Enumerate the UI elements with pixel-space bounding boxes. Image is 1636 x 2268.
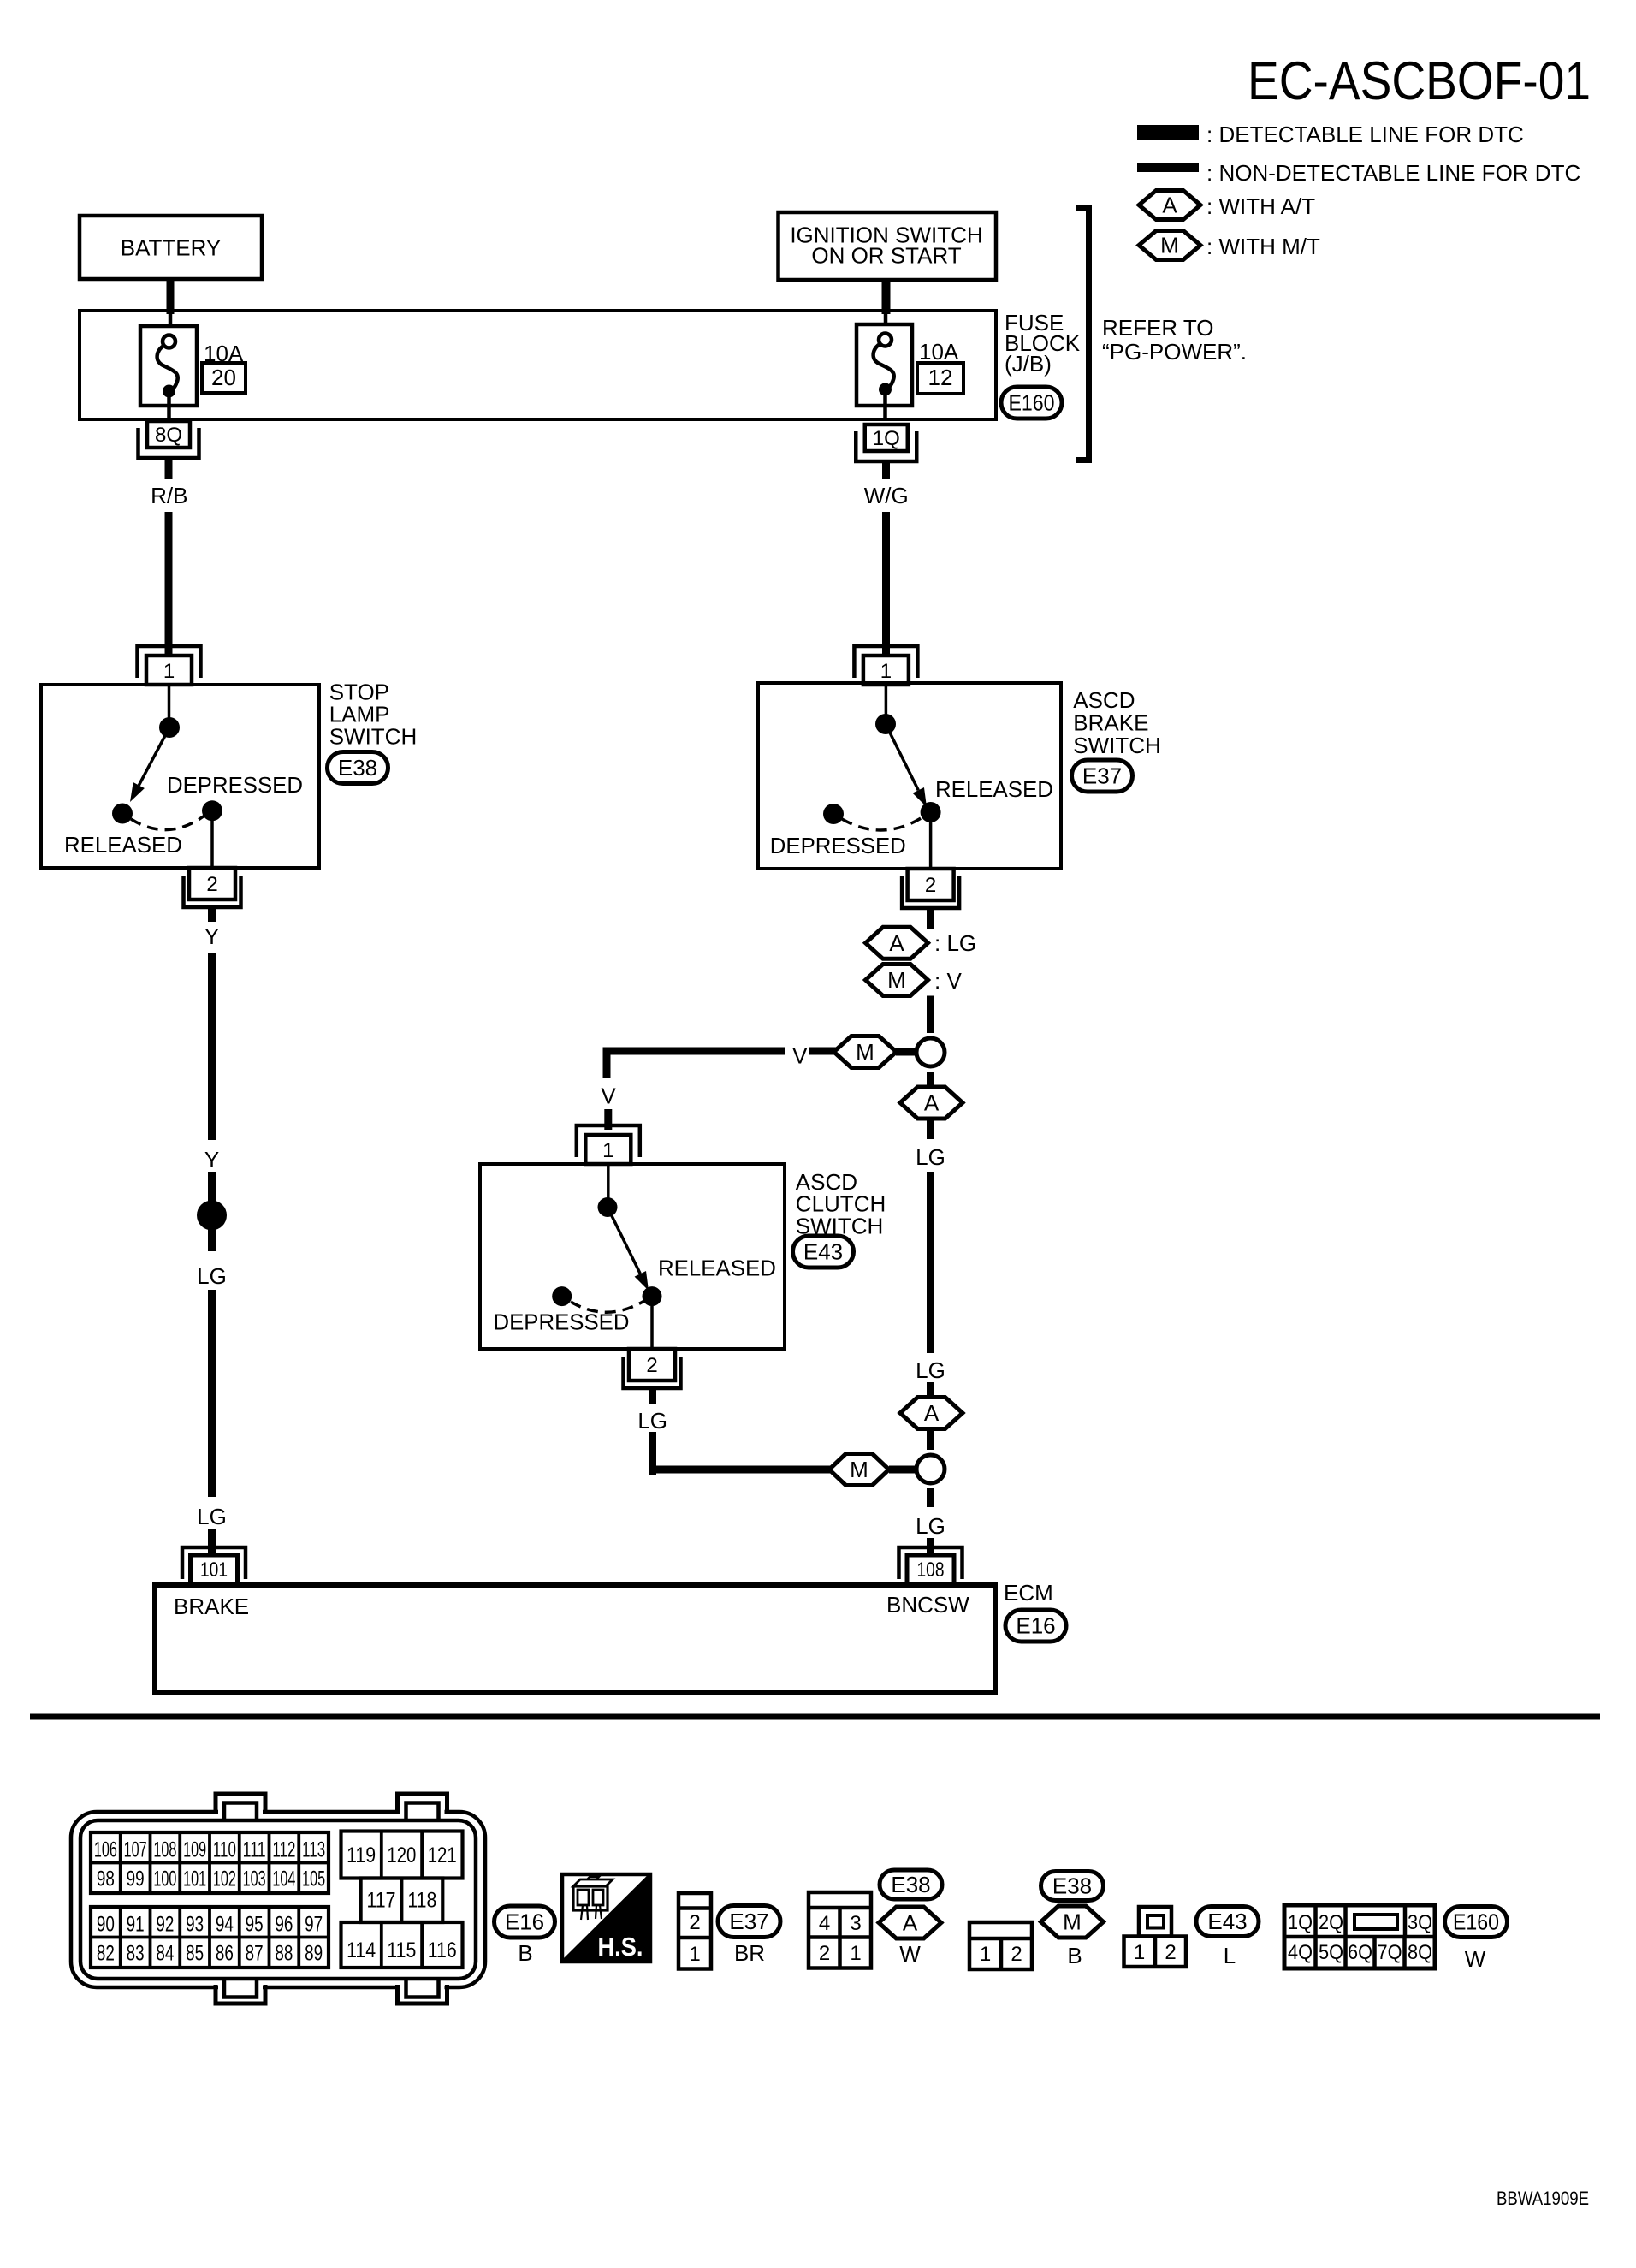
svg-text:BR: BR <box>734 1940 765 1966</box>
svg-text:82: 82 <box>97 1942 115 1966</box>
svg-text:A: A <box>903 1910 918 1936</box>
svg-text:: V: : V <box>934 968 962 994</box>
svg-text:E37: E37 <box>729 1909 768 1934</box>
svg-text:W: W <box>899 1941 921 1967</box>
svg-text:118: 118 <box>407 1889 436 1913</box>
svg-text:109: 109 <box>183 1838 206 1862</box>
svg-text:M: M <box>856 1039 874 1065</box>
svg-text:EC-ASCBOF-01: EC-ASCBOF-01 <box>1248 51 1591 111</box>
svg-text:M: M <box>850 1457 868 1482</box>
svg-text:Y: Y <box>204 923 219 949</box>
svg-text:91: 91 <box>127 1913 145 1937</box>
svg-text:115: 115 <box>387 1938 416 1962</box>
svg-text:LG: LG <box>916 1357 945 1383</box>
svg-text:2: 2 <box>206 873 217 896</box>
svg-text:5Q: 5Q <box>1319 1941 1343 1964</box>
svg-text:A: A <box>924 1090 940 1116</box>
svg-text:20: 20 <box>211 365 236 390</box>
svg-text:92: 92 <box>156 1913 174 1937</box>
svg-text:6Q: 6Q <box>1348 1941 1372 1964</box>
svg-text:105: 105 <box>302 1867 325 1891</box>
svg-text:LG: LG <box>197 1504 227 1529</box>
svg-text:8Q: 8Q <box>1408 1941 1432 1964</box>
svg-text:E38: E38 <box>891 1872 930 1897</box>
svg-text:“PG-POWER”.: “PG-POWER”. <box>1102 339 1247 365</box>
svg-text:116: 116 <box>428 1938 457 1962</box>
svg-text:87: 87 <box>246 1942 264 1966</box>
svg-text:2Q: 2Q <box>1319 1911 1343 1934</box>
svg-text:V: V <box>792 1043 808 1069</box>
svg-text:RELEASED: RELEASED <box>658 1256 776 1281</box>
svg-text:2: 2 <box>819 1942 830 1965</box>
svg-text:E160: E160 <box>1453 1909 1499 1935</box>
svg-text:E38: E38 <box>338 755 377 781</box>
svg-text:E43: E43 <box>1207 1909 1247 1934</box>
svg-text:SWITCH: SWITCH <box>1073 733 1161 758</box>
svg-text:E43: E43 <box>803 1239 843 1265</box>
svg-text:DEPRESSED: DEPRESSED <box>770 833 906 858</box>
svg-text:E16: E16 <box>505 1909 544 1935</box>
svg-text:1: 1 <box>602 1139 613 1162</box>
svg-text:E160: E160 <box>1009 390 1055 416</box>
svg-text:97: 97 <box>305 1913 323 1937</box>
svg-text:REFER TO: REFER TO <box>1102 315 1214 341</box>
svg-text:2: 2 <box>689 1911 700 1934</box>
svg-text:: NON-DETECTABLE LINE FOR DTC: : NON-DETECTABLE LINE FOR DTC <box>1206 160 1580 186</box>
svg-text:100: 100 <box>153 1867 176 1891</box>
svg-text:LG: LG <box>637 1408 667 1434</box>
svg-text:114: 114 <box>347 1938 376 1962</box>
svg-text:BNCSW: BNCSW <box>886 1592 969 1618</box>
svg-text:96: 96 <box>275 1913 293 1937</box>
svg-text:A: A <box>889 930 904 956</box>
svg-text:3Q: 3Q <box>1408 1911 1432 1934</box>
svg-text:10A: 10A <box>919 339 959 365</box>
svg-text:M: M <box>1160 233 1179 258</box>
svg-text:BRAKE: BRAKE <box>1073 709 1148 735</box>
svg-text:Y: Y <box>204 1147 219 1173</box>
svg-text:86: 86 <box>216 1942 234 1966</box>
svg-text:12: 12 <box>928 365 953 390</box>
svg-text:BBWA1909E: BBWA1909E <box>1497 2188 1589 2209</box>
svg-text:E16: E16 <box>1016 1613 1055 1639</box>
svg-text:M: M <box>887 967 906 993</box>
svg-text:2: 2 <box>925 874 936 897</box>
svg-text:(J/B): (J/B) <box>1005 351 1052 377</box>
svg-text:1: 1 <box>163 660 175 683</box>
svg-text:H.S.: H.S. <box>598 1932 643 1962</box>
svg-text:85: 85 <box>186 1942 204 1966</box>
svg-text:LG: LG <box>197 1263 227 1289</box>
svg-text:ASCD: ASCD <box>1073 687 1135 713</box>
svg-text:1: 1 <box>850 1942 861 1965</box>
svg-text:119: 119 <box>347 1843 376 1867</box>
svg-text:102: 102 <box>213 1867 236 1891</box>
svg-text:W/G: W/G <box>864 483 909 508</box>
svg-text:M: M <box>1063 1909 1082 1935</box>
svg-text:94: 94 <box>216 1913 234 1937</box>
svg-text:R/B: R/B <box>151 483 187 508</box>
svg-text:B: B <box>518 1940 532 1966</box>
svg-text:ON OR START: ON OR START <box>811 243 961 269</box>
svg-text:1: 1 <box>880 660 892 683</box>
svg-text:RELEASED: RELEASED <box>64 832 182 858</box>
svg-text:BATTERY: BATTERY <box>121 235 222 261</box>
svg-text:4: 4 <box>819 1912 830 1935</box>
svg-text:95: 95 <box>246 1913 264 1937</box>
svg-text:1: 1 <box>980 1943 991 1966</box>
svg-text:108: 108 <box>917 1559 945 1582</box>
svg-text:98: 98 <box>97 1867 115 1891</box>
svg-text:DEPRESSED: DEPRESSED <box>167 772 303 798</box>
svg-text:106: 106 <box>94 1838 117 1862</box>
svg-text:4Q: 4Q <box>1288 1941 1313 1964</box>
svg-text:1Q: 1Q <box>873 427 900 450</box>
svg-text:RELEASED: RELEASED <box>935 776 1053 802</box>
svg-text:BRAKE: BRAKE <box>174 1594 249 1619</box>
svg-text:7Q: 7Q <box>1378 1941 1402 1964</box>
svg-text:107: 107 <box>124 1838 147 1862</box>
svg-text:110: 110 <box>213 1838 236 1862</box>
svg-text:A: A <box>924 1400 940 1426</box>
svg-text:88: 88 <box>275 1942 293 1966</box>
svg-text:111: 111 <box>243 1838 266 1862</box>
svg-text:3: 3 <box>850 1912 861 1935</box>
svg-text:93: 93 <box>186 1913 204 1937</box>
svg-text:104: 104 <box>272 1867 295 1891</box>
svg-text:101: 101 <box>183 1867 206 1891</box>
svg-text:: WITH M/T: : WITH M/T <box>1206 234 1320 259</box>
svg-text:SWITCH: SWITCH <box>329 724 418 750</box>
svg-text:DEPRESSED: DEPRESSED <box>494 1309 630 1335</box>
svg-text:101: 101 <box>200 1559 228 1582</box>
svg-text:113: 113 <box>302 1838 325 1862</box>
svg-text:108: 108 <box>153 1838 176 1862</box>
svg-text:2: 2 <box>646 1354 657 1377</box>
svg-text:B: B <box>1067 1943 1082 1968</box>
svg-text:2: 2 <box>1011 1943 1022 1966</box>
svg-text:103: 103 <box>243 1867 266 1891</box>
svg-text:LG: LG <box>916 1144 945 1170</box>
svg-text:V: V <box>601 1084 616 1109</box>
svg-text:ECM: ECM <box>1004 1580 1053 1606</box>
svg-text:112: 112 <box>272 1838 295 1862</box>
svg-text:120: 120 <box>387 1843 416 1867</box>
svg-text:LG: LG <box>916 1513 945 1539</box>
svg-text:: LG: : LG <box>934 930 976 956</box>
svg-text:1Q: 1Q <box>1288 1911 1313 1934</box>
svg-text:L: L <box>1224 1943 1236 1968</box>
svg-text:E38: E38 <box>1052 1873 1092 1899</box>
svg-text:117: 117 <box>367 1889 396 1913</box>
svg-text:E37: E37 <box>1082 763 1122 789</box>
svg-text:1: 1 <box>689 1943 700 1966</box>
svg-text:: WITH A/T: : WITH A/T <box>1206 193 1315 219</box>
svg-text:2: 2 <box>1165 1941 1176 1964</box>
svg-text:89: 89 <box>305 1942 323 1966</box>
svg-text:121: 121 <box>428 1843 457 1867</box>
svg-text:90: 90 <box>97 1913 115 1937</box>
svg-text:83: 83 <box>127 1942 145 1966</box>
svg-text:: DETECTABLE LINE FOR DTC: : DETECTABLE LINE FOR DTC <box>1206 122 1524 147</box>
svg-text:A: A <box>1162 193 1177 218</box>
svg-text:1: 1 <box>1134 1941 1145 1964</box>
svg-text:99: 99 <box>127 1867 145 1891</box>
svg-text:W: W <box>1465 1946 1486 1972</box>
svg-text:8Q: 8Q <box>155 424 182 447</box>
svg-text:84: 84 <box>156 1942 174 1966</box>
